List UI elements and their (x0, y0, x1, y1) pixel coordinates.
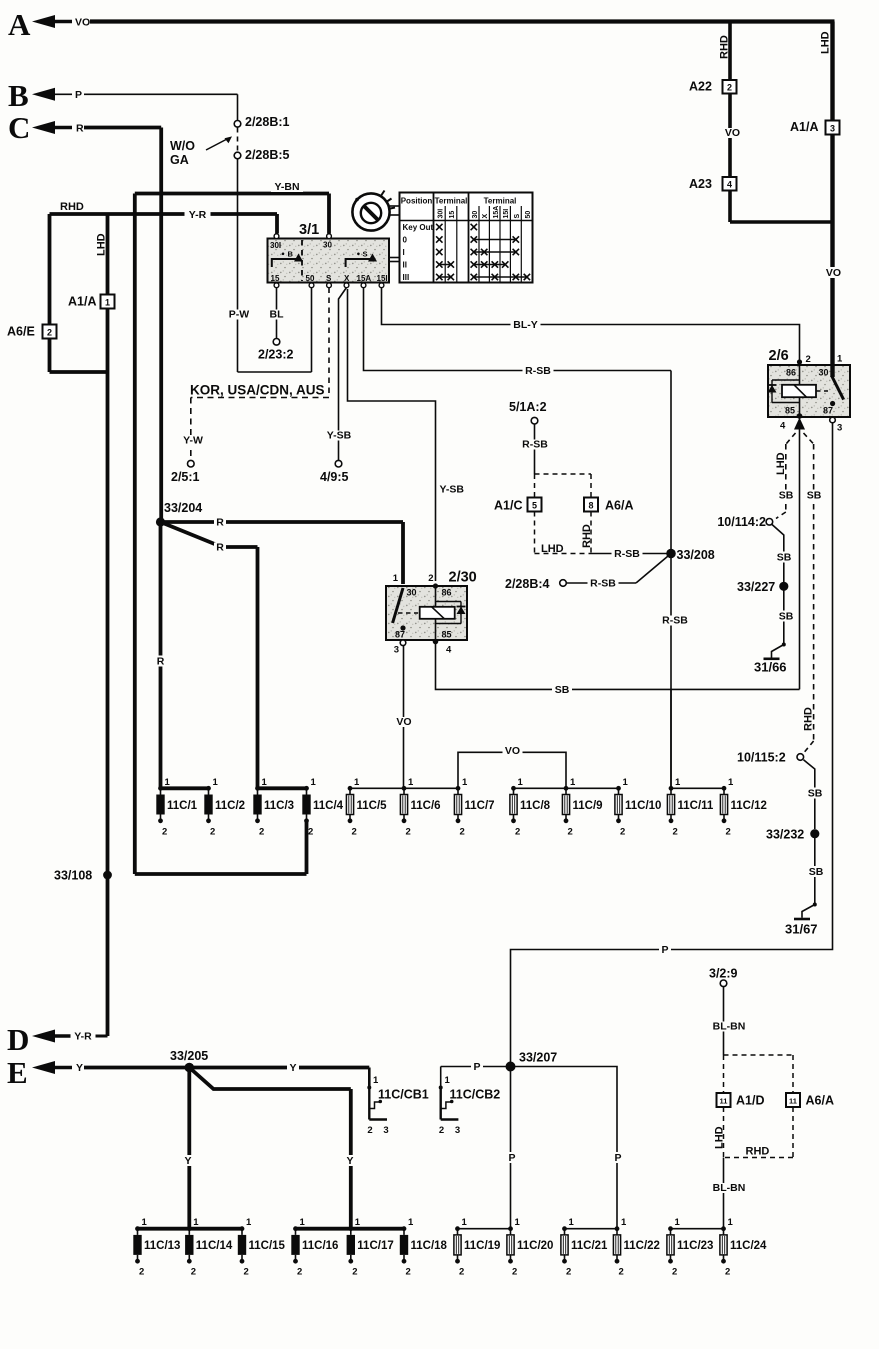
fuse 11C/21 (562, 1226, 567, 1231)
svg-text:2: 2 (725, 1267, 730, 1278)
svg-text:1: 1 (518, 777, 524, 788)
svg-text:1: 1 (142, 1217, 148, 1228)
svg-text:A6/A: A6/A (605, 499, 633, 513)
svg-text:P: P (508, 1152, 515, 1164)
svg-text:11C/21: 11C/21 (571, 1240, 608, 1252)
svg-text:R: R (216, 542, 224, 554)
svg-text:10/115:2: 10/115:2 (737, 751, 786, 765)
wire R to fuses 11C/3-11C/4 (161, 522, 258, 547)
svg-text:1: 1 (462, 777, 468, 788)
svg-text:R-SB: R-SB (662, 615, 688, 627)
fuse 11C/9 (564, 786, 569, 791)
wire Y from 33/205 to fuses 11C/16-18 (189, 1068, 350, 1090)
fuse 11C/10 (616, 786, 621, 791)
svg-text:31/67: 31/67 (785, 922, 818, 937)
svg-text:2: 2 (727, 82, 732, 92)
svg-text:3: 3 (455, 1125, 460, 1136)
svg-text:Y-W: Y-W (183, 435, 203, 447)
svg-text:X: X (344, 274, 350, 283)
svg-text:R-SB: R-SB (525, 365, 551, 377)
node 33/208 (666, 549, 676, 559)
terminal 2/23:2 (273, 339, 280, 346)
svg-text:LHD: LHD (713, 1126, 725, 1149)
svg-text:85: 85 (442, 630, 452, 640)
svg-text:A1/C: A1/C (494, 499, 522, 513)
svg-text:15: 15 (271, 274, 280, 283)
switch contact right (3/1) (346, 259, 371, 267)
svg-text:11: 11 (720, 1097, 728, 1106)
fuse 11C/24 (721, 1226, 726, 1231)
svg-text:W/O: W/O (170, 139, 195, 153)
svg-text:33/204: 33/204 (164, 501, 202, 515)
svg-text:2: 2 (47, 327, 52, 337)
svg-text:A1/A: A1/A (68, 295, 96, 309)
svg-text:1: 1 (311, 777, 317, 788)
terminal 2/28B:5 (234, 152, 241, 159)
svg-text:LHD: LHD (775, 452, 787, 475)
ground 31/67 (794, 918, 810, 921)
svg-text:30I: 30I (437, 209, 444, 219)
wire Y from 33/205 to fuses 11C/13-15 (187, 1068, 191, 1229)
svg-text:11C/20: 11C/20 (517, 1240, 553, 1252)
fuse bridge 11C/21-11C/22 (565, 1228, 618, 1230)
wire SB from 33/232 to ground (814, 838, 816, 904)
svg-text:11C/24: 11C/24 (730, 1240, 767, 1252)
relay 2/6 switch blade (832, 376, 844, 400)
svg-text:BL-Y: BL-Y (513, 319, 538, 331)
fuse 11C/11 (669, 786, 674, 791)
fuse 11C/19 (455, 1226, 460, 1231)
svg-text:2: 2 (191, 1267, 196, 1278)
svg-text:11C/9: 11C/9 (573, 800, 603, 812)
svg-text:11C/6: 11C/6 (411, 800, 441, 812)
svg-text:1: 1 (354, 777, 360, 788)
svg-text:2: 2 (672, 1267, 677, 1278)
fuse bridge 11C/3-11C/4 (258, 786, 307, 790)
svg-text:2: 2 (139, 1267, 144, 1278)
terminal 30I of 3/1 (274, 234, 279, 239)
wire R to relay 2/30 terminal 30 (161, 520, 404, 524)
svg-text:2: 2 (406, 1267, 411, 1278)
svg-text:15: 15 (449, 211, 456, 219)
svg-text:BL-BN: BL-BN (713, 1182, 746, 1194)
wire SB up to relay 2/6 pin 4 (799, 429, 801, 689)
terminal 2/28B:1 (234, 121, 241, 128)
svg-text:R: R (157, 656, 165, 668)
svg-text:86: 86 (442, 588, 452, 598)
wire P from 33/207 to fuse 11C/20 (510, 1067, 512, 1229)
wire VO bridge 11C/7 to 11C/9 (458, 752, 566, 788)
svg-text:2: 2 (566, 1267, 571, 1278)
fuse bridge 11C/19-11C/20 (458, 1228, 511, 1230)
svg-text:11C/15: 11C/15 (249, 1240, 286, 1252)
svg-text:2: 2 (515, 826, 520, 837)
svg-text:RHD: RHD (60, 201, 84, 213)
svg-text:11C/16: 11C/16 (302, 1240, 338, 1252)
svg-text:2: 2 (460, 826, 465, 837)
svg-text:1: 1 (569, 1217, 575, 1228)
fuse 11C/15 (240, 1226, 245, 1231)
svg-text:1: 1 (728, 1217, 734, 1228)
circuit breaker 11C/CB2 (439, 1086, 443, 1090)
svg-text:2: 2 (210, 826, 215, 837)
svg-text:2/30: 2/30 (449, 570, 477, 586)
svg-text:Y-SB: Y-SB (327, 430, 352, 442)
svg-text:3: 3 (383, 1125, 388, 1136)
svg-text:2: 2 (673, 826, 678, 837)
svg-text:P: P (473, 1061, 480, 1073)
wire Y from E to node 33/205 (84, 1066, 189, 1070)
svg-text:4/9:5: 4/9:5 (320, 470, 349, 484)
svg-text:2: 2 (568, 826, 573, 837)
wire VO from 2/30 pin 3 to fuse 11C/6 (403, 646, 405, 789)
svg-text:11C/7: 11C/7 (465, 800, 495, 812)
svg-text:2: 2 (406, 826, 411, 837)
svg-text:VO: VO (826, 267, 841, 279)
svg-text:SB: SB (779, 611, 794, 623)
dashed LHD leg below A1/C (534, 512, 536, 554)
label VO on LHD drop (824, 267, 844, 278)
svg-text:4: 4 (446, 645, 452, 656)
dashed RHD leg below A6/A (590, 512, 592, 554)
fuse 11C/17 (348, 1226, 353, 1231)
svg-text:P-W: P-W (229, 309, 250, 321)
svg-text:Terminal: Terminal (484, 197, 517, 206)
svg-text:33/207: 33/207 (519, 1051, 557, 1065)
svg-text:SB: SB (807, 490, 822, 502)
svg-text:1: 1 (213, 777, 219, 788)
svg-text:1: 1 (373, 1075, 379, 1086)
svg-text:III: III (403, 273, 410, 282)
svg-text:X: X (482, 214, 489, 219)
svg-text:3: 3 (394, 645, 399, 656)
svg-text:Position: Position (401, 197, 433, 206)
svg-text:3: 3 (830, 123, 835, 133)
svg-text:2: 2 (352, 826, 357, 837)
svg-text:Y: Y (289, 1062, 296, 1074)
svg-text:1: 1 (623, 777, 629, 788)
svg-text:Y: Y (184, 1155, 191, 1167)
svg-text:33/208: 33/208 (677, 548, 715, 562)
fuse 11C/18 (402, 1226, 407, 1231)
svg-text:Y: Y (346, 1155, 353, 1167)
svg-text:8: 8 (588, 500, 593, 510)
wire P from 33/207 to fuse 11C/22 (511, 1067, 618, 1229)
svg-text:KOR, USA/CDN, AUS: KOR, USA/CDN, AUS (190, 383, 325, 398)
svg-text:2: 2 (459, 1267, 464, 1278)
fuse 11C/12 (722, 786, 727, 791)
wire VO RHD branch (728, 22, 732, 81)
svg-text:5/1A:2: 5/1A:2 (509, 400, 547, 414)
svg-text:2/5:1: 2/5:1 (171, 470, 200, 484)
wire SB from 2/30 pin 4 (ground rail) (436, 644, 800, 689)
svg-text:30: 30 (819, 368, 829, 378)
svg-text:15I: 15I (503, 209, 510, 219)
svg-text:SB: SB (809, 866, 824, 878)
relay 2/6 pin 2 (86) (797, 359, 802, 364)
pins of 3/1 bottom edge (274, 283, 279, 288)
svg-text:3: 3 (837, 423, 842, 434)
relay 2/30 pin 2 (86) (433, 583, 438, 588)
dashed LHD leg below A1/D (723, 1107, 725, 1158)
wire P from 2/6 pin 3 to node 33/207 (511, 423, 833, 1062)
wire SB from 10/114:2 to 33/227 (772, 525, 784, 583)
node 33/205 (185, 1063, 195, 1073)
svg-text:1: 1 (621, 1217, 627, 1228)
svg-text:30: 30 (407, 588, 417, 598)
svg-text:A22: A22 (689, 80, 712, 94)
svg-text:30I: 30I (270, 241, 281, 250)
svg-text:2: 2 (367, 1125, 372, 1136)
svg-text:R: R (216, 517, 224, 529)
svg-text:VO: VO (505, 745, 520, 757)
svg-text:RHD: RHD (746, 1146, 770, 1158)
svg-text:2: 2 (428, 573, 433, 584)
svg-text:15A: 15A (493, 206, 500, 219)
svg-text:R: R (76, 123, 84, 135)
wire SB from 33/227 to ground (783, 591, 785, 644)
svg-text:SB: SB (808, 788, 823, 800)
wire VO LHD main drop to relay 2/6 (830, 22, 834, 366)
fuse 11C/5 (348, 786, 353, 791)
dashed split to A1/C and A6/A (535, 473, 592, 475)
svg-text:VO: VO (396, 716, 411, 728)
relay 2/6 box (768, 365, 850, 417)
svg-text:1: 1 (570, 777, 576, 788)
svg-text:85: 85 (785, 406, 795, 416)
relay 2/6 coil (782, 385, 816, 397)
node 33/207 (506, 1062, 516, 1072)
svg-text:P: P (661, 944, 668, 956)
svg-text:0: 0 (403, 236, 408, 245)
svg-text:50: 50 (525, 211, 532, 219)
svg-text:33/108: 33/108 (54, 869, 92, 883)
svg-text:C: C (8, 110, 30, 145)
svg-text:P: P (614, 1152, 621, 1164)
svg-text:11C/12: 11C/12 (731, 800, 767, 812)
svg-text:31/66: 31/66 (754, 660, 787, 675)
svg-text:SB: SB (777, 552, 792, 564)
svg-text:E: E (7, 1055, 28, 1090)
wire LHD leg via A1/A (106, 214, 110, 295)
svg-text:2: 2 (162, 826, 167, 837)
wire SB from 10/115:2 to 33/232 (804, 760, 815, 829)
svg-text:11: 11 (789, 1097, 797, 1106)
wire VO between A22 and A23 (728, 94, 732, 178)
svg-text:1: 1 (300, 1217, 306, 1228)
fuse bridge 11C/11-11C/12 (671, 787, 724, 789)
node 33/108 (103, 871, 112, 880)
svg-text:1: 1 (408, 777, 414, 788)
svg-text:1: 1 (246, 1217, 252, 1228)
svg-text:1: 1 (165, 777, 171, 788)
link 3/1 box to table (389, 257, 400, 259)
svg-text:15I: 15I (377, 274, 388, 283)
svg-text:A: A (8, 7, 31, 42)
svg-text:Key Out: Key Out (403, 223, 434, 232)
ignition switch 3/1 box (268, 239, 390, 283)
svg-text:GA: GA (170, 153, 189, 167)
svg-text:1: 1 (408, 1217, 414, 1228)
svg-text:11C/3: 11C/3 (264, 800, 294, 812)
svg-text:11C/17: 11C/17 (357, 1240, 393, 1252)
svg-text:2/28B:4: 2/28B:4 (505, 577, 550, 591)
wire SB dashed RHD from 2/6 pin 4 (804, 433, 814, 444)
svg-text:2: 2 (806, 354, 811, 365)
fuse 11C/2 (206, 786, 211, 791)
svg-text:87: 87 (395, 630, 405, 640)
terminal 30 of 3/1 (327, 234, 332, 239)
svg-text:R-SB: R-SB (590, 578, 616, 590)
svg-text:15A: 15A (357, 274, 372, 283)
svg-text:RHD: RHD (719, 35, 731, 59)
connector A1/D pin 11 (717, 1093, 731, 1107)
wire R-SB from terminal 15A to node 33/208 (364, 288, 672, 371)
wire BL from terminal 15 to 2/23:2 (276, 288, 278, 339)
svg-text:4: 4 (780, 421, 786, 432)
wire P from 33/207 to 11C/CB2 (441, 1066, 511, 1068)
fuse 11C/7 (456, 786, 461, 791)
svg-text:RHD: RHD (581, 524, 593, 548)
fuse bridge 11C/1-11C/2 (161, 786, 209, 790)
wire BL-Y from terminal 15I to relay 2/6 (382, 288, 800, 362)
svg-text:I: I (403, 248, 405, 257)
svg-text:10/114:2: 10/114:2 (717, 515, 766, 529)
svg-text:2: 2 (297, 1267, 302, 1278)
svg-text:BL: BL (270, 309, 285, 321)
svg-text:RHD: RHD (803, 707, 815, 731)
svg-text:11C/8: 11C/8 (520, 800, 551, 812)
svg-text:S: S (514, 214, 521, 219)
wire R from C to node 33/204 (84, 126, 161, 130)
ignition position/terminal table (400, 193, 533, 283)
fuse 11C/14 (187, 1226, 192, 1231)
ground 31/66 (764, 657, 780, 660)
dashed split to A1/D and A6/A (724, 1054, 794, 1056)
svg-text:1: 1 (675, 1217, 681, 1228)
svg-text:4: 4 (727, 179, 732, 189)
relay 2/30 switch blade (393, 588, 403, 623)
svg-text:11C/5: 11C/5 (357, 800, 388, 812)
svg-text:50: 50 (306, 274, 315, 283)
wire P-W from 2/28B:5 to ignition switch terminal 50 (237, 159, 239, 372)
svg-text:3/2:9: 3/2:9 (709, 967, 738, 981)
svg-text:R-SB: R-SB (614, 548, 640, 560)
ignition key symbol (352, 193, 389, 230)
wire RHD leg bottom rejoin (48, 339, 52, 373)
wire RHD branch rejoin (728, 191, 732, 223)
fuse 11C/20 (508, 1226, 513, 1231)
wire S dashed to KOR option (328, 288, 330, 398)
fuse 11C/6 (402, 786, 407, 791)
wire Y-SB from terminal X to 4/9:5 (339, 288, 347, 461)
svg-text:2/28B:1: 2/28B:1 (245, 115, 290, 129)
svg-text:2: 2 (308, 826, 313, 837)
svg-text:2/28B:5: 2/28B:5 (245, 148, 290, 162)
svg-text:1: 1 (728, 777, 734, 788)
svg-text:11C/1: 11C/1 (167, 800, 198, 812)
terminal 4/9:5 (335, 460, 342, 467)
svg-text:R-SB: R-SB (522, 439, 548, 451)
svg-text:30: 30 (472, 211, 479, 219)
svg-text:1: 1 (393, 573, 399, 584)
wire P from B to 2/28B:1 (84, 93, 238, 95)
wire BL-BN to fuse 11C/24 (723, 1158, 725, 1229)
relay 2/6 pin 1 (30) (830, 365, 834, 377)
wire SB drop to fuses 11C/11-12 (670, 689, 672, 788)
svg-text:A1/D: A1/D (736, 1094, 764, 1108)
svg-text:2: 2 (244, 1267, 249, 1278)
svg-text:2: 2 (620, 826, 625, 837)
node 33/204 (156, 517, 165, 526)
wire Y-SB from terminal X to relay 2/30 coil (348, 289, 436, 581)
fuse 11C/8 (511, 786, 516, 791)
fuse bridge 11C/13-11C/15 (138, 1227, 243, 1231)
svg-text:1: 1 (262, 777, 268, 788)
svg-text:VO: VO (725, 127, 740, 139)
wire RHD left leg via A6/E (48, 214, 52, 325)
label Y-BN (271, 182, 303, 192)
svg-text:11C/13: 11C/13 (144, 1240, 180, 1252)
wire BL-BN from 3/2:9 (723, 987, 725, 1055)
svg-text:11C/19: 11C/19 (464, 1240, 500, 1252)
wire R down to fuses 11C/1-11C/2 (159, 522, 163, 788)
svg-text:B: B (288, 250, 294, 259)
wire R-SB from 5/1A:2 (534, 424, 536, 474)
svg-text:LHD: LHD (820, 31, 832, 54)
svg-text:SB: SB (555, 684, 570, 696)
svg-text:11C/11: 11C/11 (678, 800, 714, 812)
wire Y from 33/205 to 11C/CB1 (189, 1066, 369, 1070)
wire Y-BN from fuse 11C/4 to ignition switch 30 (135, 192, 329, 196)
svg-text:87: 87 (823, 406, 833, 416)
svg-text:11C/CB1: 11C/CB1 (378, 1088, 429, 1102)
svg-text:Y: Y (76, 1062, 83, 1074)
dashed RHD leg below A6/A (792, 1107, 794, 1158)
svg-text:33/205: 33/205 (170, 1049, 208, 1063)
svg-text:2: 2 (726, 826, 731, 837)
node 33/227 (779, 582, 788, 591)
fuse bridge 11C/8-11C/10 (514, 787, 619, 789)
svg-text:A23: A23 (689, 177, 712, 191)
svg-text:2: 2 (439, 1125, 444, 1136)
svg-text:11C/4: 11C/4 (313, 800, 344, 812)
svg-text:1: 1 (515, 1217, 521, 1228)
switch contact left (3/1) (272, 259, 297, 267)
fuse 11C/23 (668, 1226, 673, 1231)
node 33/232 (810, 829, 819, 838)
svg-text:Y-BN: Y-BN (274, 181, 299, 193)
svg-text:A6/E: A6/E (7, 325, 35, 339)
svg-text:86: 86 (786, 368, 796, 378)
svg-text:A1/A: A1/A (790, 120, 818, 134)
svg-text:11C/18: 11C/18 (411, 1240, 448, 1252)
svg-text:11C/2: 11C/2 (215, 800, 245, 812)
relay 2/30 box (386, 586, 467, 640)
wire VO main feed (A to top right) (90, 19, 835, 23)
svg-text:A6/A: A6/A (806, 1094, 834, 1108)
svg-text:1: 1 (193, 1217, 199, 1228)
svg-text:Y-SB: Y-SB (440, 484, 465, 496)
svg-text:2: 2 (259, 826, 264, 837)
svg-text:P: P (75, 89, 82, 101)
svg-text:5: 5 (532, 500, 537, 510)
svg-text:D: D (7, 1022, 29, 1057)
fuse 11C/22 (615, 1226, 620, 1231)
svg-text:2/6: 2/6 (769, 348, 789, 364)
svg-text:30: 30 (323, 241, 332, 250)
svg-text:1: 1 (675, 777, 681, 788)
